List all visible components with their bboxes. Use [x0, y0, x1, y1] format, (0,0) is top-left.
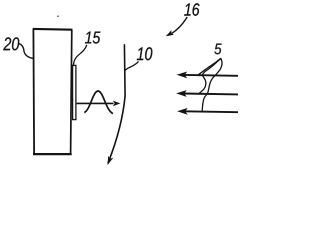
leader for 10 [125, 61, 139, 71]
leader for 15 [74, 45, 87, 65]
label 20 [3, 37, 11, 50]
label 15 [85, 32, 91, 44]
leader for 20 [19, 44, 34, 59]
label 10 [137, 47, 143, 60]
deflected beam line 10 [108, 44, 125, 163]
label 5 [214, 44, 221, 55]
emitter strip 15 [73, 65, 76, 119]
arrowhead for 16 [164, 30, 174, 38]
leader arrow for 16 [169, 17, 188, 35]
speck dot [57, 15, 59, 17]
leader 5 to ray 2 upper segment [202, 59, 220, 75]
incoming ray arrow 1 [177, 72, 238, 79]
beam arrowhead [105, 156, 113, 167]
incoming ray arrow 3 [177, 108, 238, 115]
leader 5 to ray 2 lower S segment [199, 75, 206, 94]
pulse wave arrow [77, 91, 114, 114]
pulse arrowhead [113, 101, 121, 107]
leader 5 to ray 3 (leaf right edge, crosses rays 1 and 2) [202, 58, 222, 111]
leader 5 to ray 1 (leaf left edge) [198, 58, 220, 74]
body block 20 [33, 29, 73, 154]
label 16 [184, 3, 190, 15]
incoming ray arrow 2 [176, 90, 238, 97]
